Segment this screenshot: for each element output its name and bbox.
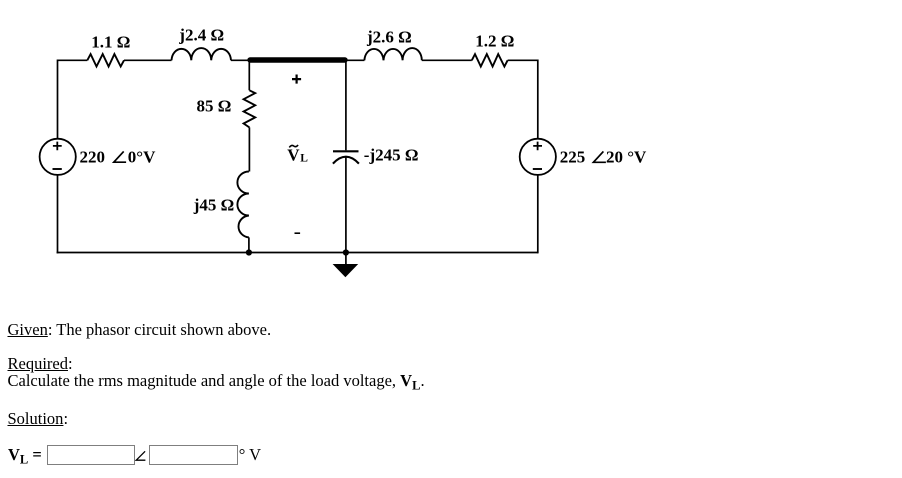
answer angle symbol (135, 450, 147, 462)
angle symbol of VS2 label (593, 151, 606, 162)
wire L2 to R2 (422, 59, 472, 61)
wire bar to L2 (346, 59, 364, 61)
svg-text:j45 Ω: j45 Ω (193, 195, 235, 214)
answer input box angle (149, 445, 238, 465)
svg-text:225: 225 (560, 148, 586, 167)
given statement (8, 320, 272, 339)
resistor R 1.1ohm (87, 54, 124, 66)
ground symbol (filled triangle) (333, 264, 359, 277)
wire j45 to bottom rail (248, 237, 250, 252)
VS1 minus sign (53, 168, 62, 170)
VS1 plus sign (53, 142, 62, 151)
voltage source VS2 225V (520, 139, 556, 175)
svg-text:1.1 Ω: 1.1 Ω (91, 33, 130, 52)
wire bottom rail (57, 252, 538, 254)
answer units deg V (239, 445, 261, 464)
junction dot left (246, 249, 252, 255)
tilde over V (289, 145, 298, 147)
capacitor C bottom curved plate (333, 157, 359, 164)
svg-text:j2.4 Ω: j2.4 Ω (178, 26, 224, 45)
angle symbol of VS1 label (114, 151, 126, 162)
svg-text:20 °V: 20 °V (606, 148, 647, 167)
svg-text:220: 220 (80, 147, 106, 166)
wire between 85ohm and j45 (248, 127, 250, 171)
answer input box magnitude (47, 445, 135, 465)
svg-text:V: V (287, 146, 300, 165)
inductor L j45ohm (vertical) (237, 172, 249, 238)
plus polarity of VL (292, 75, 301, 84)
svg-text:j2.6 Ω: j2.6 Ω (366, 27, 412, 46)
svg-text:-j245 Ω: -j245 Ω (364, 146, 419, 165)
wire between R1 and L1 (124, 59, 172, 61)
svg-text:85 Ω: 85 Ω (197, 97, 232, 116)
wire capacitor to bottom rail (345, 157, 347, 253)
VS2 minus sign (533, 168, 542, 170)
required heading (8, 354, 73, 373)
voltage source VS1 220V (40, 139, 76, 175)
VS2 plus sign (533, 142, 542, 151)
answer VL = (8, 445, 42, 464)
wire top-left horizontal (58, 60, 88, 139)
inductor L j2.4ohm (172, 48, 232, 60)
wire right side lower (537, 175, 539, 254)
wire left side lower (57, 175, 59, 254)
wire L1 to node bar (231, 59, 249, 61)
svg-text:L: L (300, 153, 308, 165)
resistor R 1.2ohm (472, 54, 508, 66)
svg-text:1.2 Ω: 1.2 Ω (475, 32, 514, 51)
required statement (8, 371, 425, 390)
solution heading (8, 409, 69, 428)
wire middle branch upper (248, 60, 250, 90)
resistor R 85ohm (vertical) (244, 90, 256, 127)
ground stub (345, 253, 347, 265)
node bar (thick bus) (250, 57, 345, 62)
capacitor C top plate (333, 150, 359, 152)
wire capacitor branch upper (345, 60, 347, 150)
wire top-right (508, 60, 538, 139)
minus polarity of VL (295, 232, 301, 234)
junction dot right (343, 249, 349, 255)
svg-text:0°V: 0°V (128, 147, 156, 166)
inductor L j2.6ohm (364, 48, 421, 60)
